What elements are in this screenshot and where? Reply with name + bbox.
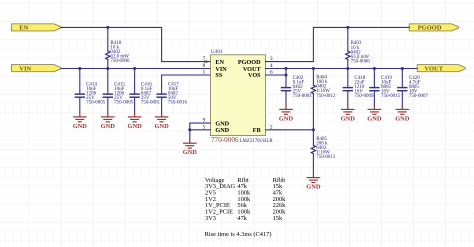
resistor R418 (106, 27, 130, 68)
svg-text:VIN: VIN (19, 65, 31, 72)
svg-text:GND: GND (101, 123, 116, 130)
ground GND (U401) (183, 140, 198, 157)
ground GND (C414) (73, 112, 88, 130)
ground GND (C420) (395, 106, 410, 123)
svg-text:750-0007: 750-0007 (409, 94, 429, 99)
svg-text:750-0006: 750-0006 (351, 59, 371, 64)
ground GND (C419) (367, 106, 382, 123)
svg-text:15k: 15k (273, 215, 283, 222)
junction VIN/C414 (78, 67, 81, 70)
port VIN (12, 65, 61, 73)
junction VIN/C416 (133, 67, 136, 70)
svg-text:GND: GND (215, 127, 229, 134)
wire FB net (266, 129, 314, 131)
svg-text:FB: FB (253, 127, 261, 134)
svg-text:47k: 47k (237, 215, 247, 222)
ground GND (C418) (341, 106, 356, 123)
junction EN/R418 (106, 26, 109, 29)
pin numbers U401 (203, 56, 273, 130)
wire VIN rail (61, 68, 211, 70)
svg-text:VOUT: VOUT (424, 65, 443, 72)
resistor R405 (311, 130, 336, 174)
svg-text:3V3: 3V3 (205, 215, 216, 222)
ground GND (C402) (279, 106, 294, 123)
ground GND (C416) (127, 112, 142, 130)
capacitor C417 (156, 82, 187, 112)
wire VOS net (266, 74, 287, 76)
svg-text:GND: GND (154, 123, 169, 130)
junction VIN/R418/C415 (106, 67, 109, 70)
ground GND (R405) (306, 174, 321, 191)
pin names U401 (215, 59, 261, 134)
port VOUT (417, 65, 465, 73)
table Rfbt/Rfbb values (205, 177, 286, 222)
capacitor C419 (369, 69, 400, 106)
capacitor C415 (103, 69, 134, 112)
junction PGOOD/R403 (346, 26, 349, 29)
ground GND (C415) (101, 112, 116, 130)
wire VOUT rail (266, 68, 418, 70)
svg-text:750-0013: 750-0013 (316, 155, 336, 160)
svg-text:GND: GND (367, 115, 382, 122)
svg-text:GND: GND (341, 115, 356, 122)
svg-text:PGOOD: PGOOD (418, 25, 442, 32)
svg-text:EN: EN (19, 25, 28, 32)
svg-text:1: 1 (203, 70, 206, 76)
junction VOUT/C420 (401, 67, 404, 70)
svg-text:750-0009: 750-0009 (354, 94, 374, 99)
wire EN net (61, 27, 211, 61)
svg-text:750-0005: 750-0005 (114, 101, 134, 106)
capacitor C402 (281, 69, 312, 106)
value label 770-0006 (211, 136, 239, 144)
svg-text:GND: GND (183, 149, 198, 156)
junction VOUT/R404 (312, 67, 315, 70)
capacitor C420 (397, 69, 428, 106)
svg-text:LMZ21701SILR: LMZ21701SILR (240, 139, 274, 144)
svg-text:750-0016: 750-0016 (168, 101, 188, 106)
svg-text:750-0005: 750-0005 (86, 101, 106, 106)
svg-text:GND: GND (73, 123, 88, 130)
svg-text:770-0006: 770-0006 (211, 136, 239, 144)
resistor R404 (311, 69, 336, 130)
svg-text:750-0012: 750-0012 (316, 94, 336, 99)
svg-text:GND: GND (395, 115, 410, 122)
svg-text:U401: U401 (211, 49, 223, 55)
port PGOOD (409, 24, 458, 32)
junction VOUT/C402 (284, 67, 287, 70)
svg-text:750-0015: 750-0015 (381, 94, 401, 99)
resistor R403 (346, 27, 371, 68)
svg-text:VOS: VOS (248, 72, 261, 79)
junction VOUT/R403/C418 (346, 67, 349, 70)
svg-text:GND: GND (279, 115, 294, 122)
value label LMZ21701SILR (240, 139, 274, 144)
svg-text:750-0006: 750-0006 (110, 59, 130, 64)
svg-text:750-0001: 750-0001 (293, 94, 313, 99)
svg-text:GND: GND (306, 184, 321, 191)
capacitor C414 (75, 69, 106, 112)
ground GND (C417) (154, 112, 169, 130)
wire SS net (162, 75, 211, 94)
junction FB/R404/R405 (312, 128, 315, 131)
svg-text:8: 8 (203, 63, 206, 69)
note rise time (205, 231, 272, 238)
svg-text:SS: SS (215, 72, 222, 79)
svg-text:GND: GND (127, 123, 142, 130)
wire GND pins 9/5 (190, 123, 211, 140)
junction VOS/C402 (284, 73, 287, 76)
wire PGOOD net (266, 27, 410, 61)
svg-text:750-0001: 750-0001 (141, 101, 161, 106)
svg-text:Rise time is 4.3ms (C417): Rise time is 4.3ms (C417) (205, 231, 272, 238)
IC U401 LMZ21701SILR (211, 49, 266, 136)
capacitor C416 (129, 69, 160, 112)
no-ERC marker pin 7 (205, 60, 208, 63)
capacitor C418 (343, 69, 374, 106)
junction VOUT/C419 (373, 67, 376, 70)
junction GND pins (188, 128, 191, 131)
port EN (12, 24, 61, 32)
